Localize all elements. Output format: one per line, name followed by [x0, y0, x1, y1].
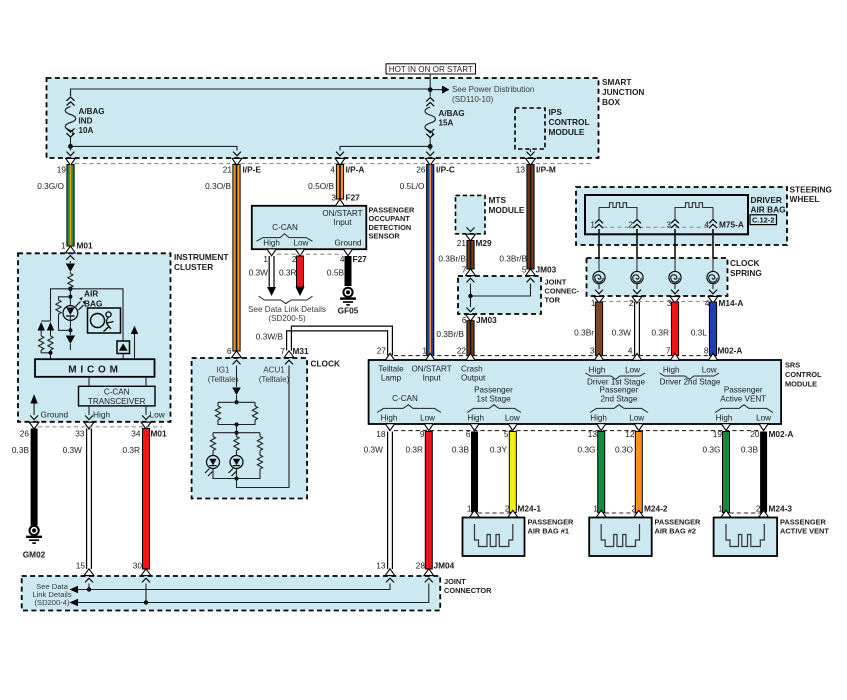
see power distribution arrow [432, 85, 534, 104]
M24-3 pin row [718, 504, 792, 524]
JM03 pin 6 [462, 308, 497, 325]
wire bus to pin 21 [71, 146, 238, 150]
svg-text:30: 30 [133, 560, 143, 570]
squib passenger air bag #2 [601, 524, 639, 547]
svg-text:Low: Low [629, 414, 644, 423]
svg-text:STEERING: STEERING [790, 185, 832, 195]
wire 0.5L/O pin26 to SRS pin1 [400, 165, 434, 356]
svg-text:See Power Distribution: See Power Distribution [452, 85, 534, 94]
svg-text:JM03: JM03 [536, 265, 557, 275]
svg-text:A/BAG: A/BAG [79, 107, 105, 116]
svg-text:2: 2 [631, 504, 636, 514]
wire 0.3W clock spring to SRS pin4 [612, 302, 640, 356]
svg-text:1: 1 [61, 241, 66, 251]
svg-text:0.3B: 0.3B [741, 445, 759, 455]
SRS pin 27 telltale lamp [378, 353, 404, 382]
node under fuse 15A [428, 144, 433, 149]
wire 0.3Br/B MTS to JM03 pin7 [438, 241, 474, 270]
svg-text:3: 3 [590, 346, 595, 356]
pin 26 I/P-C [416, 152, 455, 175]
svg-text:0.3G: 0.3G [703, 445, 721, 455]
ground GM02 [23, 526, 46, 560]
squib passenger air bag #1 [475, 524, 513, 547]
svg-text:JM03: JM03 [476, 315, 497, 325]
svg-text:JOINT: JOINT [545, 278, 567, 287]
svg-text:1: 1 [263, 254, 268, 264]
svg-text:6: 6 [466, 429, 471, 439]
joint connector JM03 [458, 276, 580, 314]
svg-text:Low: Low [756, 414, 771, 423]
ground GF05 [338, 288, 359, 316]
svg-text:DRIVER: DRIVER [751, 195, 782, 205]
see data link details SD200-5 [248, 296, 326, 323]
wire 0.3G/O pin19 to cluster M01 [37, 165, 74, 247]
svg-text:Input: Input [333, 218, 352, 227]
SRS c-can group [377, 394, 441, 423]
svg-text:22: 22 [457, 346, 467, 356]
SRS passenger active vent group [715, 386, 773, 423]
wire 0.3Br/B pin13 I/P-M to JM03 pin5 [499, 165, 534, 270]
svg-text:0.3B: 0.3B [12, 445, 30, 455]
SRS pins 3 4 driver 1st stage [586, 353, 646, 386]
wire 0.3B SRS pin20 to M24-3 [741, 432, 767, 513]
svg-text:M31: M31 [293, 346, 310, 356]
svg-text:CONNECTOR: CONNECTOR [444, 586, 492, 595]
svg-text:Low: Low [150, 410, 166, 420]
svg-text:BAG: BAG [84, 299, 102, 309]
svg-text:High: High [93, 410, 110, 420]
up arrow right of amp box [131, 326, 138, 360]
svg-text:M01: M01 [151, 429, 168, 439]
svg-text:(SD110-10): (SD110-10) [452, 95, 494, 104]
POD pin 3 F27 [331, 192, 360, 206]
cluster: resistor R-top [68, 272, 73, 288]
cluster ground branch [30, 394, 68, 419]
svg-text:SMART: SMART [602, 77, 632, 87]
svg-text:BOX: BOX [602, 97, 620, 107]
svg-text:0.3Br/B: 0.3Br/B [499, 254, 527, 264]
svg-text:M14-A: M14-A [719, 298, 744, 308]
svg-text:9: 9 [420, 429, 425, 439]
svg-text:M02-A: M02-A [718, 346, 743, 356]
svg-text:AIR BAG: AIR BAG [751, 205, 786, 215]
svg-text:High: High [381, 414, 398, 423]
node: power feed junction [428, 87, 433, 92]
wire: bus to A/BAG IND fuse [71, 89, 431, 96]
pin 4 I/P-A [330, 152, 364, 175]
svg-text:INSTRUMENT: INSTRUMENT [174, 252, 228, 262]
svg-text:13: 13 [516, 164, 526, 174]
connector row I/P (gray dashed) [75, 163, 592, 165]
pin 21 I/P-E [223, 152, 262, 175]
node under fuse 10A [68, 144, 73, 149]
svg-text:0.3R: 0.3R [122, 445, 140, 455]
svg-text:HOT IN ON OR START: HOT IN ON OR START [389, 65, 473, 74]
svg-text:SPRING: SPRING [730, 268, 762, 278]
svg-text:Low: Low [702, 366, 717, 375]
svg-text:ACU1: ACU1 [263, 366, 285, 375]
svg-text:0.3Y: 0.3Y [490, 445, 508, 455]
svg-text:7: 7 [462, 265, 467, 275]
JM04 internal bus low [70, 584, 429, 607]
svg-text:IND: IND [79, 117, 93, 126]
svg-text:M29: M29 [476, 238, 493, 248]
clock LED network [205, 366, 289, 488]
svg-text:(SD200-5): (SD200-5) [268, 314, 306, 323]
wire 0.3L clock spring to SRS pin8 [691, 302, 717, 356]
squib driver 1st stage [599, 203, 637, 219]
wire 0.3O SRS pin12 to M24-2 [615, 432, 642, 513]
JM04 pin 13 [376, 560, 395, 582]
svg-text:I/P-A: I/P-A [346, 164, 365, 174]
svg-text:F27: F27 [346, 192, 361, 202]
svg-text:4: 4 [340, 254, 345, 264]
svg-text:2: 2 [756, 504, 761, 514]
M75-A pin row gray dashed [603, 226, 709, 228]
svg-text:6: 6 [227, 346, 232, 356]
svg-text:Passenger: Passenger [474, 386, 513, 395]
steering wheel [576, 185, 832, 246]
svg-text:7: 7 [280, 346, 285, 356]
svg-text:C.12-2: C.12-2 [752, 215, 775, 224]
svg-text:Passenger: Passenger [600, 386, 639, 395]
clock internal: arrow from pin6 [232, 366, 241, 405]
squib driver 2nd stage [675, 203, 713, 219]
M75-A pin 1 [590, 220, 603, 230]
svg-text:See Data Link Details: See Data Link Details [248, 305, 326, 314]
IPS control module [515, 107, 590, 152]
svg-text:21: 21 [457, 238, 467, 248]
svg-text:Crash: Crash [461, 365, 483, 374]
svg-text:CLOCK: CLOCK [730, 258, 760, 268]
svg-text:0.3W: 0.3W [364, 445, 384, 455]
svg-text:0.3Br/B: 0.3Br/B [436, 329, 464, 339]
wires M75-A to clock spring [599, 229, 713, 251]
svg-text:1: 1 [593, 504, 598, 514]
svg-text:High: High [589, 366, 606, 375]
svg-text:High: High [663, 366, 680, 375]
svg-text:PASSENGER: PASSENGER [655, 517, 702, 526]
svg-text:1: 1 [467, 504, 472, 514]
svg-text:0.3W: 0.3W [249, 268, 269, 278]
passenger air bag #1 [463, 517, 575, 556]
wire 0.3W/B clock pin7 to SRS pin27 [256, 326, 393, 355]
svg-text:13: 13 [376, 560, 386, 570]
svg-text:TOR: TOR [545, 296, 561, 305]
driver air bag module [585, 195, 786, 234]
clock resistor pair loop [215, 402, 257, 432]
svg-text:MTS: MTS [489, 195, 507, 205]
fuse A/BAG 15A [425, 90, 465, 147]
cluster: arrow down to micom [66, 330, 75, 350]
wire bus to pin 4 [340, 146, 430, 150]
svg-text:High: High [590, 414, 607, 423]
svg-text:PASSENGER: PASSENGER [780, 517, 827, 526]
svg-text:I/P-E: I/P-E [243, 164, 262, 174]
svg-text:JOINT: JOINT [444, 577, 466, 586]
wire from hot label to node [429, 74, 431, 87]
svg-text:8: 8 [704, 346, 709, 356]
svg-text:1: 1 [718, 504, 723, 514]
clock pin 7 M31 [280, 346, 309, 364]
svg-text:F27: F27 [353, 254, 368, 264]
wire 0.3W SRS pin18 to JM04 pin13 [364, 432, 393, 570]
wire 0.3G SRS pin13 to M24-2 [578, 432, 605, 513]
svg-text:0.3W: 0.3W [63, 445, 83, 455]
svg-text:15: 15 [76, 560, 86, 570]
M75-A pin 4 [704, 220, 744, 230]
clock spring coil contacts [593, 271, 719, 303]
svg-text:CLUSTER: CLUSTER [174, 262, 213, 272]
SRS control module [369, 360, 822, 424]
svg-text:0.3W: 0.3W [612, 328, 632, 338]
JM03 pin 5 [522, 265, 557, 283]
passenger occupant detection sensor [252, 206, 415, 250]
svg-text:SRS: SRS [785, 361, 800, 370]
svg-text:IG1: IG1 [216, 366, 230, 375]
svg-text:Telltale: Telltale [378, 365, 404, 374]
svg-text:M01: M01 [77, 241, 94, 251]
wire 0.3Br/B JM03 pin6 to SRS pin22 [436, 321, 474, 356]
svg-text:18: 18 [376, 429, 386, 439]
svg-text:(SD200-4): (SD200-4) [34, 598, 69, 607]
svg-text:0.3O: 0.3O [615, 445, 634, 455]
svg-text:27: 27 [377, 346, 387, 356]
svg-text:WHEEL: WHEEL [790, 194, 820, 204]
svg-text:I/P-M: I/P-M [536, 164, 556, 174]
svg-text:20: 20 [750, 429, 760, 439]
svg-text:PASSENGER: PASSENGER [528, 517, 575, 526]
svg-text:ON/START: ON/START [322, 209, 362, 218]
svg-text:MODULE: MODULE [785, 380, 817, 389]
connector label C.12-2 [750, 215, 777, 225]
POD bottom pins 1 2 4 [263, 249, 367, 264]
svg-text:AIR BAG #1: AIR BAG #1 [528, 526, 569, 535]
svg-text:2: 2 [628, 220, 633, 230]
svg-text:0.3G: 0.3G [578, 445, 596, 455]
pin 1 M01 cluster [61, 241, 93, 260]
SRS bottom pins [376, 424, 793, 439]
svg-text:AIR BAG #2: AIR BAG #2 [655, 526, 696, 535]
svg-text:19: 19 [713, 429, 723, 439]
svg-text:6: 6 [462, 315, 467, 325]
pin 19 [57, 152, 76, 175]
wire 0.3G SRS pin19 to M24-3 [703, 432, 730, 513]
amplifier box with triangle [117, 341, 130, 359]
wire 0.3W POD high [249, 256, 276, 296]
svg-text:21: 21 [223, 164, 233, 174]
clock spring entries [599, 251, 713, 271]
wire 0.3O/B pin21 to clock pin6 [205, 165, 240, 352]
svg-text:1: 1 [590, 220, 595, 230]
svg-text:26: 26 [20, 429, 30, 439]
airbag lamp LED [63, 289, 86, 333]
svg-text:Ground: Ground [41, 410, 69, 420]
wire 0.3W cluster high to JM04 pin15 [63, 429, 92, 570]
svg-text:C-CAN: C-CAN [272, 223, 298, 232]
JM03 internal bus [468, 284, 530, 308]
svg-text:SENSOR: SENSOR [369, 231, 401, 240]
M75-A pin 3 [666, 220, 679, 230]
svg-text:Low: Low [625, 366, 640, 375]
SRS passenger 1st stage group [467, 386, 521, 423]
AIR BAG label [84, 289, 102, 309]
svg-text:0.3Br/B: 0.3Br/B [438, 254, 466, 264]
wire 0.3R clock spring to SRS pin7 [651, 302, 678, 356]
svg-text:High: High [263, 239, 280, 248]
svg-text:CLOCK: CLOCK [311, 359, 341, 369]
SRS passenger 2nd stage group [590, 386, 648, 423]
svg-text:Low: Low [293, 239, 308, 248]
svg-text:2: 2 [629, 298, 634, 308]
cluster pins 26 33 34 [20, 415, 167, 438]
clock pin 6 [227, 346, 242, 364]
passenger air bag #2 [589, 517, 701, 556]
wire: fuse 15A to pin 26 [429, 146, 431, 150]
M24-2 pin row [593, 504, 668, 524]
wire 0.3R SRS pin9 to JM04 pin28 [405, 432, 432, 570]
svg-text:13: 13 [588, 429, 598, 439]
svg-text:JM04: JM04 [434, 560, 455, 570]
joint connector JM04 [22, 576, 492, 611]
passenger active vent [714, 517, 830, 556]
svg-text:28: 28 [416, 560, 426, 570]
wire 0.3B cluster ground to GM02 [12, 429, 38, 526]
svg-text:ON/START: ON/START [412, 365, 452, 374]
svg-text:0.3R: 0.3R [651, 328, 669, 338]
clock spring [587, 258, 762, 296]
svg-text:0.3O/B: 0.3O/B [205, 181, 231, 191]
svg-text:0.3L: 0.3L [691, 328, 708, 338]
see data link details SD200-4 [32, 582, 71, 607]
M24-1 pin row [467, 504, 542, 524]
svg-text:4: 4 [704, 220, 709, 230]
svg-text:C-CAN: C-CAN [104, 388, 130, 397]
svg-text:Low: Low [505, 414, 520, 423]
svg-text:A/BAG: A/BAG [439, 109, 465, 118]
svg-text:MICOM: MICOM [68, 364, 121, 375]
MTS module [456, 195, 525, 234]
JM04 pin 15 [76, 560, 94, 582]
wire: fuse 10A to pin 19 [70, 146, 72, 150]
wire 0.3B SRS pin6 to M24-1 [452, 432, 478, 513]
resistor parallel to LED [56, 297, 71, 331]
node cluster top [68, 287, 72, 291]
svg-text:M24-1: M24-1 [518, 504, 542, 514]
wire 0.5B POD ground [327, 256, 352, 286]
svg-text:(Telltale): (Telltale) [259, 375, 290, 384]
svg-text:0.5L/O: 0.5L/O [400, 181, 425, 191]
squib passenger active vent [726, 524, 764, 547]
svg-text:0.5O/B: 0.5O/B [308, 181, 334, 191]
svg-text:26: 26 [416, 164, 426, 174]
svg-text:M24-2: M24-2 [644, 504, 668, 514]
svg-text:34: 34 [131, 429, 141, 439]
M02-A top row [377, 346, 743, 356]
svg-text:5: 5 [504, 429, 509, 439]
svg-text:5: 5 [522, 265, 527, 275]
svg-text:Ground: Ground [335, 239, 362, 248]
svg-text:Driver 2nd Stage: Driver 2nd Stage [660, 378, 721, 387]
svg-text:Active VENT: Active VENT [720, 394, 766, 403]
svg-text:I/P-C: I/P-C [436, 164, 455, 174]
SRS pin 22 crash output [461, 353, 486, 382]
smart junction box [47, 77, 645, 158]
JM04 pin 30 [133, 560, 151, 582]
svg-text:0.3W/B: 0.3W/B [256, 332, 284, 342]
svg-text:0.3R: 0.3R [279, 268, 297, 278]
M14-A row [591, 298, 744, 308]
airbag icon [88, 308, 121, 333]
C-CAN transceiver box [79, 377, 156, 406]
svg-text:3: 3 [331, 192, 336, 202]
cluster frame wire [51, 289, 124, 341]
MTS pin 21 M29 [457, 227, 492, 248]
svg-text:33: 33 [75, 429, 85, 439]
svg-text:10A: 10A [79, 126, 94, 135]
svg-text:(Telltale): (Telltale) [208, 375, 239, 384]
svg-text:0.3Br: 0.3Br [574, 328, 594, 338]
svg-text:C-CAN: C-CAN [392, 394, 418, 403]
svg-text:4: 4 [330, 164, 335, 174]
instrument cluster [18, 252, 228, 422]
pin 13 I/P-M [516, 152, 556, 175]
JM03 pin 7 [462, 265, 476, 283]
svg-text:MODULE: MODULE [549, 127, 585, 137]
svg-text:CONTROL: CONTROL [549, 117, 590, 127]
cluster high/low wires to pins [89, 406, 166, 420]
svg-text:15A: 15A [439, 119, 454, 128]
svg-text:IPS: IPS [549, 107, 563, 117]
wire 0.3Br clock spring to SRS pin3 [574, 302, 602, 356]
svg-text:M02-A: M02-A [769, 429, 794, 439]
svg-text:3: 3 [666, 220, 671, 230]
svg-text:12: 12 [625, 429, 635, 439]
svg-text:CONNEC-: CONNEC- [545, 287, 580, 296]
svg-text:M75-A: M75-A [719, 220, 744, 230]
svg-text:CONTROL: CONTROL [785, 370, 822, 379]
left resistors with arrows [38, 321, 55, 359]
svg-text:Input: Input [423, 374, 442, 383]
svg-text:AIR: AIR [84, 289, 98, 299]
JM04 internal bus high [70, 584, 391, 594]
fuse A/BAG IND 10A [65, 89, 104, 146]
svg-text:JUNCTION: JUNCTION [602, 87, 644, 97]
svg-text:7: 7 [666, 346, 671, 356]
svg-text:GF05: GF05 [338, 305, 359, 315]
MICOM box [35, 359, 155, 377]
svg-text:1st Stage: 1st Stage [476, 394, 511, 403]
cluster: arrow down from pin1 [66, 261, 75, 272]
wire 0.3R cluster low to JM04 pin30 [122, 429, 149, 570]
svg-text:0.3R: 0.3R [405, 445, 423, 455]
M75-A pin 2 [628, 220, 641, 230]
svg-text:0.5B: 0.5B [327, 268, 345, 278]
svg-text:2: 2 [505, 504, 510, 514]
svg-text:1: 1 [422, 346, 427, 356]
JM04 pin 28 [416, 560, 455, 582]
SRS pin 1 on/start input [412, 353, 452, 382]
svg-text:Passenger: Passenger [724, 386, 763, 395]
svg-text:Low: Low [420, 414, 435, 423]
svg-text:4: 4 [628, 346, 633, 356]
svg-text:MODULE: MODULE [489, 205, 525, 215]
svg-text:Lamp: Lamp [381, 374, 402, 383]
HOT IN ON OR START label [386, 64, 476, 74]
svg-text:GM02: GM02 [23, 550, 46, 560]
wire 0.3Y SRS pin5 to M24-1 [490, 432, 516, 513]
svg-text:High: High [716, 414, 733, 423]
